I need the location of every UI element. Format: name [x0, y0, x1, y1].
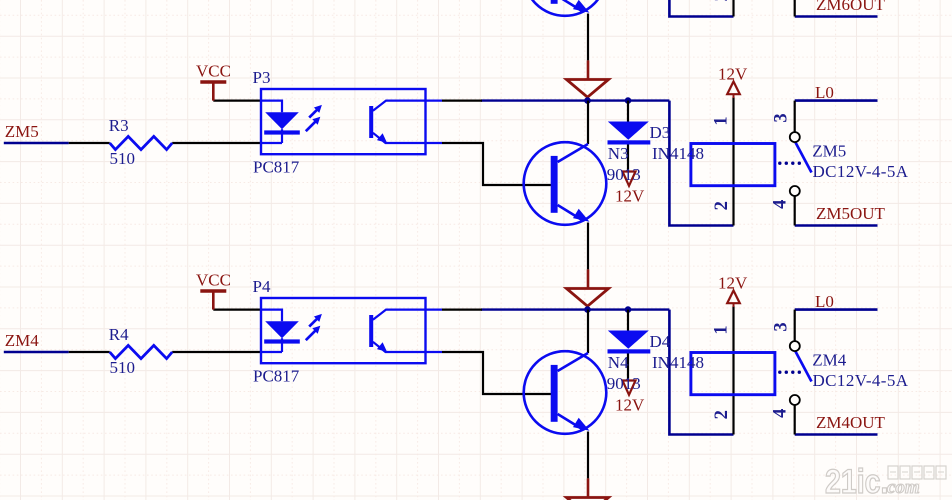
svg-text:N3: N3: [608, 144, 629, 163]
svg-text:D3: D3: [650, 123, 671, 142]
svg-text:P4: P4: [253, 277, 271, 296]
svg-text:com: com: [887, 477, 920, 498]
svg-text:N4: N4: [608, 353, 629, 372]
svg-text:R3: R3: [109, 116, 129, 135]
svg-text:R4: R4: [109, 325, 129, 344]
svg-text:D4: D4: [650, 332, 671, 351]
svg-text:ZM6OUT: ZM6OUT: [816, 0, 886, 14]
svg-text:ZM4: ZM4: [812, 351, 847, 370]
svg-text:ZM4OUT: ZM4OUT: [816, 413, 886, 432]
svg-text:ZM5: ZM5: [812, 142, 846, 161]
svg-text:21ic.: 21ic.: [825, 463, 888, 500]
svg-text:ZM4: ZM4: [5, 331, 40, 350]
svg-text:P3: P3: [253, 68, 271, 87]
svg-text:ZM5OUT: ZM5OUT: [816, 204, 886, 223]
svg-text:ZM5: ZM5: [5, 122, 39, 141]
